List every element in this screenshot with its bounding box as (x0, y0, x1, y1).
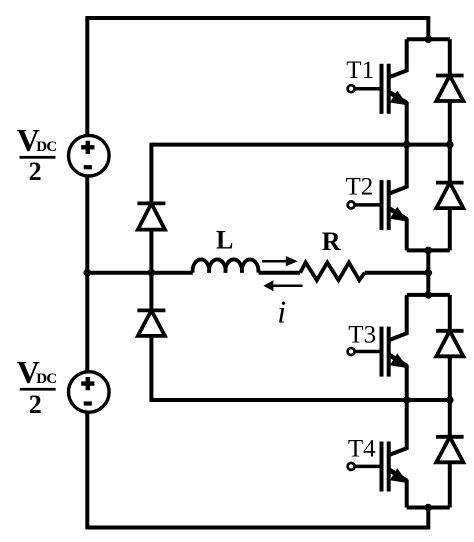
wire top drop to bridge (426, 16, 430, 39)
wire T3/T4 junction line (151, 398, 449, 402)
wire phase output vertical (426, 250, 430, 295)
transistor T1 (IGBT) (348, 39, 408, 144)
junction D3/D4 (446, 396, 454, 404)
label VDC/2 (bottom source) (17, 354, 57, 419)
source V1 (69, 135, 110, 176)
svg-text:R: R (322, 227, 341, 256)
junction T4 bracket / bottom riser (425, 504, 433, 512)
wire bottom bus (85, 526, 428, 530)
wire T4 cell bottom bracket (407, 506, 450, 510)
svg-text:T3: T3 (348, 322, 376, 349)
diode D3 (antiparallel T3) (436, 295, 464, 400)
wire left DC rail (85, 18, 89, 528)
wire load to phase output (365, 271, 429, 275)
wire top bus (85, 16, 428, 20)
svg-text:T4: T4 (348, 436, 376, 463)
transistor T2 (IGBT) (348, 145, 408, 251)
junction neutral / left rail (84, 269, 92, 277)
resistor R (300, 263, 365, 281)
svg-text:DC: DC (36, 139, 56, 155)
wire T1 cell top bracket (407, 37, 450, 41)
svg-text:2: 2 (29, 157, 42, 186)
wire neutral to load (87, 271, 193, 275)
clamp diode D6 (137, 310, 165, 336)
inductor L (193, 259, 259, 272)
wire bottom riser to bridge (426, 508, 430, 530)
clamp diode D5 (137, 203, 165, 229)
diode D2 (antiparallel T2) (436, 145, 464, 251)
svg-text:L: L (216, 226, 233, 255)
svg-text:T2: T2 (346, 174, 374, 201)
transistor T4 (IGBT) (348, 400, 408, 508)
wire T3 cell top bracket (407, 293, 450, 297)
svg-text:DC: DC (36, 371, 56, 387)
arrow current i left (263, 280, 302, 291)
wire between L and R (259, 271, 301, 275)
diode D1 (antiparallel T1) (436, 39, 464, 144)
junction T3 bracket / output (425, 291, 433, 299)
junction D1/D2 (446, 141, 454, 149)
arrow current direction right (262, 256, 298, 266)
svg-text:i: i (277, 293, 286, 329)
wire T1/T2 junction line (151, 143, 449, 147)
label VDC/2 (top source) (17, 122, 57, 186)
wire clamp middle vertical (149, 230, 153, 311)
wire clamp bottom vertical (149, 336, 153, 402)
svg-text:2: 2 (29, 390, 42, 419)
wire clamp top vertical (149, 143, 153, 204)
svg-text:T1: T1 (346, 57, 374, 84)
junction T3 emitter (403, 396, 411, 404)
junction neutral / clamp chain (148, 269, 156, 277)
transistor T3 (IGBT) (348, 295, 408, 400)
junction T2 bracket / output (425, 247, 433, 255)
wire T2 cell bottom bracket (407, 248, 450, 252)
junction T1 emitter (403, 141, 411, 149)
source V2 (69, 372, 110, 413)
junction load / output (425, 269, 433, 277)
diode D4 (antiparallel T4) (436, 400, 464, 508)
junction top bus / bridge (425, 35, 433, 43)
